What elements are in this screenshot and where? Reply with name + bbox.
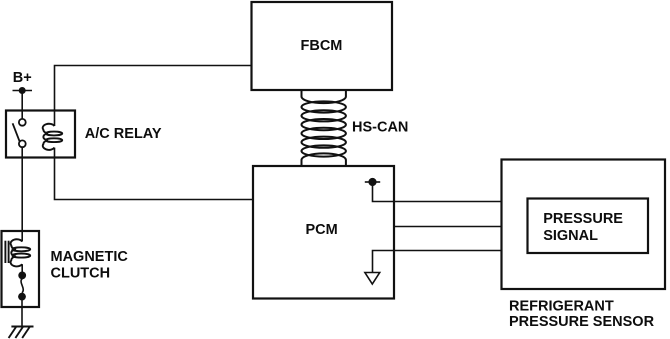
clutch coil L2 with core: [5, 239, 30, 266]
svg-text:MAGNETIC: MAGNETIC: [51, 249, 129, 265]
svg-text:PCM: PCM: [306, 222, 338, 238]
wire PCM terminal to pressure sensor (top): [373, 182, 502, 202]
node/terminal inside PCM: [365, 181, 380, 183]
svg-text:FBCM: FBCM: [301, 38, 343, 54]
relay switch contact (normally open): [19, 119, 26, 126]
svg-text:PRESSURE SENSOR: PRESSURE SENSOR: [509, 314, 655, 330]
magnetic clutch (box): [2, 231, 40, 307]
wire pressure sensor to PCM ground (bottom): [373, 251, 502, 273]
wire relay switch to magnetic clutch: [21, 147, 23, 231]
ground symbol (arrow) inside PCM: [365, 273, 380, 285]
block PRESSURE SIGNAL (inner box): [528, 199, 649, 254]
wire FBCM to relay coil: [55, 66, 252, 127]
chassis ground: [9, 327, 34, 339]
clutch contact plates: [21, 264, 23, 272]
wire relay coil to PCM: [55, 148, 254, 200]
svg-text:A/C RELAY: A/C RELAY: [85, 126, 162, 142]
relay K1 A/C RELAY (box): [6, 111, 75, 158]
HS-CAN twisted pair between FBCM and PCM: [302, 91, 346, 167]
svg-text:B+: B+: [13, 70, 32, 86]
wire PCM to pressure sensor (middle): [394, 226, 502, 228]
svg-text:CLUTCH: CLUTCH: [51, 265, 111, 281]
power terminal B+: [13, 90, 33, 92]
relay coil L1: [43, 124, 63, 150]
svg-text:REFRIGERANT: REFRIGERANT: [509, 298, 614, 314]
svg-text:HS-CAN: HS-CAN: [352, 120, 408, 136]
wire clutch to ground: [21, 300, 23, 327]
svg-text:SIGNAL: SIGNAL: [543, 228, 598, 244]
module FBCM (box): [252, 2, 393, 90]
module PCM (box): [253, 166, 394, 299]
wire B+ to relay switch: [21, 91, 23, 120]
wire into clutch coil: [21, 231, 23, 242]
svg-text:PRESSURE: PRESSURE: [543, 211, 623, 227]
module REFRIGERANT PRESSURE SENSOR (box): [502, 160, 666, 290]
